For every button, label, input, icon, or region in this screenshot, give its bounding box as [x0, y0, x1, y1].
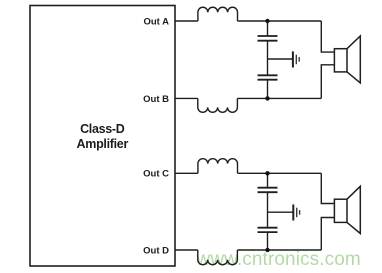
- wire down to speaker top terminal: [321, 173, 334, 203]
- node B junction: [265, 96, 269, 100]
- wire C3 to C4: [267, 192, 269, 228]
- svg-text:Out A: Out A: [143, 16, 169, 27]
- wire L1 to speaker corner: [238, 20, 322, 22]
- node D junction: [265, 248, 269, 252]
- wire to ground 1: [268, 58, 293, 60]
- wire L2 to speaker corner: [237, 97, 321, 99]
- wire down to speaker top terminal: [321, 21, 334, 52]
- capacitor C1: [258, 36, 278, 41]
- wire L3 to speaker corner: [238, 172, 322, 174]
- svg-text:Class-D: Class-D: [80, 122, 125, 136]
- wire up to speaker bottom terminal: [321, 65, 334, 99]
- capacitor C2: [258, 75, 278, 79]
- node C junction: [265, 171, 269, 175]
- inductor L3: [198, 159, 238, 174]
- ground 2: [292, 205, 294, 221]
- wire to ground 2: [268, 211, 294, 213]
- ground 1: [292, 51, 294, 67]
- svg-text:Out B: Out B: [143, 94, 169, 105]
- wire Out D: [175, 249, 198, 251]
- svg-text:www.cntronics.com: www.cntronics.com: [196, 249, 361, 270]
- inductor L2: [198, 98, 238, 112]
- capacitor C3 lead from node C: [267, 173, 269, 187]
- speaker SPK1 box: [334, 49, 347, 72]
- wire Out A: [175, 20, 198, 22]
- capacitor C1 lead from node A: [267, 21, 269, 36]
- inductor L4: [198, 250, 238, 265]
- wire C4 to node D: [267, 232, 269, 250]
- capacitor C3: [258, 188, 278, 193]
- wire C2 to node B: [267, 80, 269, 99]
- speaker SPK1 cone: [347, 36, 360, 83]
- amplifier box U1 Class-D Amplifier: [30, 6, 175, 267]
- wire Out B: [175, 97, 198, 99]
- wire Out C: [175, 172, 198, 174]
- inductor L1: [198, 7, 238, 21]
- node A junction: [265, 19, 269, 23]
- capacitor C4: [258, 228, 278, 232]
- speaker SPK2 box: [334, 199, 347, 222]
- svg-text:Out D: Out D: [143, 245, 169, 256]
- speaker SPK2 cone: [347, 186, 360, 233]
- wire L4 to speaker corner: [237, 249, 321, 251]
- svg-text:Out C: Out C: [143, 169, 169, 180]
- wire C1 to C2: [267, 41, 269, 76]
- svg-text:Amplifier: Amplifier: [77, 137, 129, 151]
- wire up to speaker bottom terminal: [321, 218, 334, 251]
